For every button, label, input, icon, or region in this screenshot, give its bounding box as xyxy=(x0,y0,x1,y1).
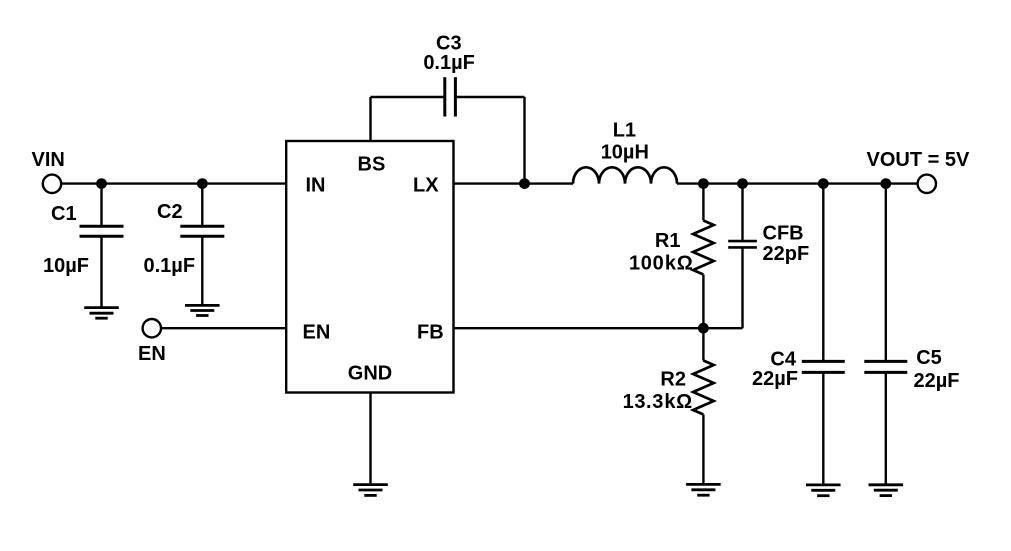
inductor L1 xyxy=(573,167,677,183)
wire EN terminal to EN pin xyxy=(161,327,286,329)
capacitor C4 xyxy=(802,361,845,372)
wire CFB to FB node xyxy=(703,327,742,329)
svg-text:R1: R1 xyxy=(655,230,681,252)
junction node C5 xyxy=(880,178,891,189)
wire C1 to ground xyxy=(100,236,102,306)
ground C1 xyxy=(84,308,119,319)
svg-text:VIN: VIN xyxy=(32,149,65,171)
svg-text:0.1µF: 0.1µF xyxy=(423,52,475,74)
svg-text:C3: C3 xyxy=(436,33,462,55)
wire C3 down to LX rail xyxy=(523,97,525,184)
junction node CFB top xyxy=(737,178,748,189)
terminal VOUT xyxy=(918,175,936,193)
svg-text:C1: C1 xyxy=(51,203,77,225)
svg-text:IN: IN xyxy=(306,174,326,196)
ground C2 xyxy=(185,305,220,315)
wire GND pin down xyxy=(369,393,371,484)
junction node C1 xyxy=(96,178,107,189)
svg-text:VOUT = 5V: VOUT = 5V xyxy=(867,149,970,171)
junction node LX/C3 xyxy=(519,178,530,189)
ground GND pin xyxy=(353,485,388,496)
svg-text:LX: LX xyxy=(413,174,439,196)
wire FB node to R2 xyxy=(702,328,704,360)
IC U1 box xyxy=(286,141,453,393)
wire C5 upper lead xyxy=(885,184,887,362)
capacitor C3 xyxy=(445,77,456,116)
svg-text:C5: C5 xyxy=(916,347,942,369)
svg-text:13.3kΩ: 13.3kΩ xyxy=(623,391,693,413)
svg-text:GND: GND xyxy=(348,363,392,385)
svg-text:CFB: CFB xyxy=(763,223,804,245)
svg-text:0.1µF: 0.1µF xyxy=(144,255,196,277)
resistor R1 xyxy=(693,221,714,275)
ground C5 xyxy=(869,485,904,496)
svg-text:100kΩ: 100kΩ xyxy=(629,252,694,274)
junction node C4 xyxy=(818,178,829,189)
ground C4 xyxy=(806,485,841,496)
wire C2 branch upper xyxy=(201,184,203,227)
junction node C2 xyxy=(197,178,208,189)
capacitor C5 xyxy=(864,361,907,372)
svg-text:22µF: 22µF xyxy=(752,368,798,390)
resistor R2 xyxy=(693,361,714,415)
wire R2 to ground xyxy=(702,415,704,484)
capacitor C2 xyxy=(180,226,224,236)
junction node FB xyxy=(698,323,709,334)
junction node R1 top xyxy=(698,178,709,189)
svg-text:R2: R2 xyxy=(660,368,686,390)
wire C1 branch upper xyxy=(100,184,102,227)
terminal EN xyxy=(143,319,161,337)
wire inductor to VOUT xyxy=(677,182,918,184)
wire LX pin to inductor xyxy=(454,182,574,184)
svg-text:EN: EN xyxy=(303,322,331,344)
wire C4 upper lead xyxy=(822,184,824,362)
svg-text:FB: FB xyxy=(417,322,444,344)
svg-text:L1: L1 xyxy=(613,120,636,142)
wire VIN to IN pin xyxy=(62,182,287,184)
capacitor CFB xyxy=(728,241,757,247)
svg-text:10µH: 10µH xyxy=(601,142,649,164)
wire C3 right plate to LX node xyxy=(455,96,524,98)
svg-text:C2: C2 xyxy=(157,201,183,223)
svg-text:22µF: 22µF xyxy=(914,370,960,392)
wire FB pin to FB node xyxy=(454,327,704,329)
svg-text:22pF: 22pF xyxy=(763,243,810,265)
capacitor C1 xyxy=(80,226,124,236)
wire CFB lower lead xyxy=(741,247,743,328)
svg-text:10µF: 10µF xyxy=(43,255,89,277)
ground R2 xyxy=(686,484,721,495)
wire BS to C3 left plate xyxy=(371,96,445,98)
wire CFB upper lead xyxy=(741,184,743,242)
wire R1 bottom to FB node xyxy=(702,275,704,329)
wire C5 to ground xyxy=(885,372,887,483)
terminal VIN xyxy=(43,175,61,193)
svg-text:EN: EN xyxy=(138,343,166,365)
wire C2 to ground xyxy=(201,236,203,304)
wire C4 to ground xyxy=(822,372,824,483)
wire BS pin up xyxy=(369,97,371,141)
svg-text:BS: BS xyxy=(358,153,386,175)
wire R1 top lead xyxy=(702,184,704,221)
